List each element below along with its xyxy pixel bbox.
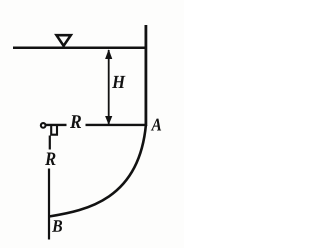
- label A: [151, 119, 161, 131]
- label R (vertical radius): [45, 153, 56, 165]
- horizontal radius line O-A, left segment: [46, 124, 67, 126]
- label H: [112, 76, 126, 88]
- dimension line for H: [108, 50, 110, 124]
- vertical radius line O-B, upper segment: [49, 136, 51, 150]
- arrowhead down (H dimension, at level of A): [105, 116, 112, 125]
- horizontal radius line O-A, right segment: [86, 124, 146, 126]
- water surface line: [13, 47, 147, 50]
- free-surface symbol (inverted open triangle): [57, 35, 71, 46]
- quarter-circle gate surface from A to B: [49, 125, 146, 217]
- center ring O: [41, 123, 46, 128]
- vertical radius line O-B, lower segment (through B): [48, 169, 50, 240]
- right wall vertical line (above A): [144, 25, 147, 126]
- arrowhead up (H dimension, at surface): [105, 49, 112, 59]
- right-angle symbol at center: [51, 126, 57, 135]
- label R (horizontal radius): [70, 115, 81, 128]
- label B: [52, 220, 62, 232]
